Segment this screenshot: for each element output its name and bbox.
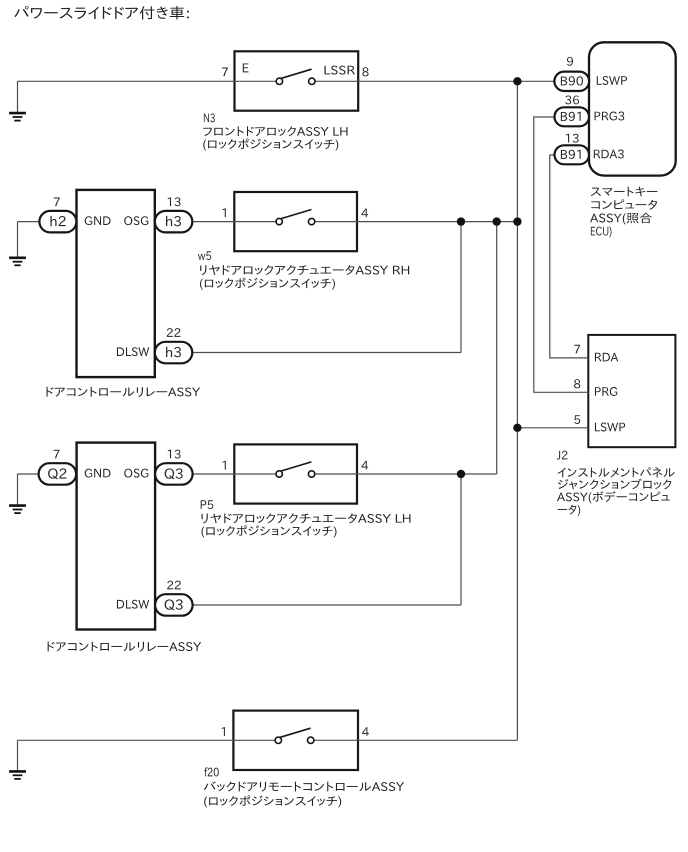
label ECU line3: [590, 213, 652, 225]
pin label PRG3: [595, 112, 625, 121]
pin number 22 relay2: [167, 581, 181, 590]
junction dot node bus J2 LSWP: [513, 424, 521, 432]
pin number 7 relay2: [54, 450, 60, 459]
switch f20 contacts and blade: [275, 728, 314, 743]
switch P5 contacts and blade: [276, 462, 315, 477]
pin oval h2: [39, 211, 76, 233]
junction dot node x461 row2: [457, 217, 465, 225]
label w5 line2: [200, 278, 335, 290]
wire row3 ground to Q2: [18, 473, 39, 475]
pin label DLSW relay1: [117, 347, 149, 356]
label relay1: [47, 387, 201, 397]
pin number 5 J2: [574, 415, 580, 424]
wire h3 through w5 to bus: [192, 221, 517, 223]
switch P5 box: [234, 444, 357, 503]
wire ground stem G3: [17, 474, 19, 506]
pin number 8 J2: [574, 379, 580, 388]
label f20 line2: [204, 795, 341, 807]
label N3 line2: [203, 139, 338, 151]
pin text Q3 DLSW: [165, 599, 183, 610]
pin number 1 P5: [222, 461, 225, 470]
pin number 7 relay1: [54, 198, 60, 207]
wire ground stem G2: [17, 222, 19, 258]
pin oval Q3 OSG: [155, 463, 193, 485]
junction dot node bus/LSWP row1: [513, 77, 521, 85]
wire dlsw1 vertical x461: [460, 222, 462, 353]
pin label LSWP ECU: [597, 76, 627, 85]
label N3 designator: [204, 113, 215, 122]
pin number 7 N3: [222, 68, 228, 77]
pin oval h3 DLSW: [155, 342, 193, 364]
label w5 line1: [200, 265, 409, 275]
wire Q3 through P5 to x497: [192, 473, 496, 475]
pin number 1 w5: [222, 208, 225, 217]
pin oval Q2: [39, 463, 77, 485]
label ECU line1: [591, 187, 658, 197]
label f20 designator: [204, 767, 219, 776]
pin number 36 B91: [565, 95, 579, 104]
wire dlsw1 horizontal: [192, 352, 461, 354]
pin text Q3 OSG: [165, 468, 183, 479]
connector J2 junction block box: [588, 335, 675, 447]
wire row2 ground to h2: [18, 221, 40, 223]
pin number 13 relay2: [168, 450, 181, 459]
wire ground stem G1: [17, 81, 19, 113]
ground G2: [9, 258, 26, 266]
pin label E: [243, 63, 249, 72]
label P5 designator: [201, 500, 214, 509]
switch N3 box: [235, 51, 359, 110]
switch N3 contacts and blade: [276, 69, 315, 84]
switch f20 box: [233, 711, 358, 770]
junction dot node bus row2: [513, 217, 521, 225]
pin oval B91 PRG3: [555, 107, 590, 126]
wire bus to J2 LSWP: [517, 427, 588, 429]
ground G1: [9, 113, 26, 121]
pin text h2: [50, 216, 65, 226]
junction dot node x461 row3: [457, 470, 465, 478]
label ECU line4: [591, 226, 612, 237]
pin label OSG relay2: [124, 469, 148, 478]
connector U1 smart key ECU box: [589, 42, 676, 175]
pin number 4 f20: [362, 727, 369, 736]
pin label PRG J2: [595, 387, 617, 396]
pin label RDA J2: [595, 353, 618, 362]
pin label DLSW relay2: [117, 600, 149, 609]
pin text B91 PRG3: [561, 112, 581, 121]
pin number 7 J2: [574, 345, 580, 354]
switch w5 contacts and blade: [276, 210, 315, 225]
pin label RDA3: [594, 150, 624, 159]
label ECU line2: [591, 199, 657, 209]
label J2 line1: [558, 467, 675, 477]
wire row1 ground to N3 to B90: [18, 80, 555, 82]
pin oval h3 OSG: [155, 211, 193, 233]
pin oval B91 RDA3: [555, 145, 590, 164]
label relay2: [48, 642, 202, 652]
label P5 line1: [202, 513, 411, 523]
label w5 designator: [198, 251, 211, 260]
ground G3: [9, 506, 26, 513]
pin number 9 B90: [567, 57, 573, 66]
label P5 line2: [201, 525, 336, 537]
label f20 line1: [204, 781, 404, 791]
pin text B90: [561, 76, 583, 85]
label J2 line4: [558, 505, 580, 517]
pin label LSWP J2: [595, 423, 625, 432]
pin oval B90: [554, 72, 589, 91]
wire vertical x497: [496, 222, 498, 474]
pin number 8 N3: [362, 67, 368, 76]
title パワースライドドア付き車: [14, 6, 188, 19]
ground G4: [9, 771, 26, 779]
wire dlsw2 horizontal: [192, 604, 461, 606]
relay box 2 door control relay: [77, 443, 156, 630]
pin label LSSR: [324, 66, 354, 75]
pin number 13 relay1: [168, 197, 181, 206]
label J2 line2: [558, 479, 672, 490]
wire RDA3 to J2 RDA: [550, 155, 589, 358]
pin number 13 B91: [566, 134, 579, 143]
wire vertical bus x517: [516, 81, 518, 740]
pin number 1 f20: [222, 727, 225, 736]
pin label OSG relay1: [124, 216, 148, 225]
pin label GND relay1: [85, 216, 111, 225]
label J2 designator: [557, 451, 568, 460]
wire PRG3 to J2 PRG: [534, 117, 589, 392]
pin number 4 w5: [361, 209, 368, 218]
switch w5 box: [234, 192, 357, 251]
wire ground stem G4: [17, 740, 19, 771]
pin text B91 RDA3: [561, 150, 581, 159]
wire row4 ground through f20 to bus: [18, 739, 518, 741]
pin text h3 DLSW: [166, 347, 181, 358]
relay box 1 door control relay: [77, 190, 155, 377]
pin text Q2: [48, 468, 66, 479]
pin text h3 OSG: [166, 216, 181, 227]
label J2 line3: [557, 491, 670, 503]
label N3 line1: [203, 126, 347, 136]
pin number 4 P5: [361, 461, 368, 470]
junction dot node x497 row2: [493, 217, 501, 225]
pin label GND relay2: [85, 469, 111, 478]
pin number 22 relay1: [167, 328, 181, 337]
wire dlsw2 vertical x461: [460, 474, 462, 605]
pin oval Q3 DLSW: [155, 594, 193, 616]
